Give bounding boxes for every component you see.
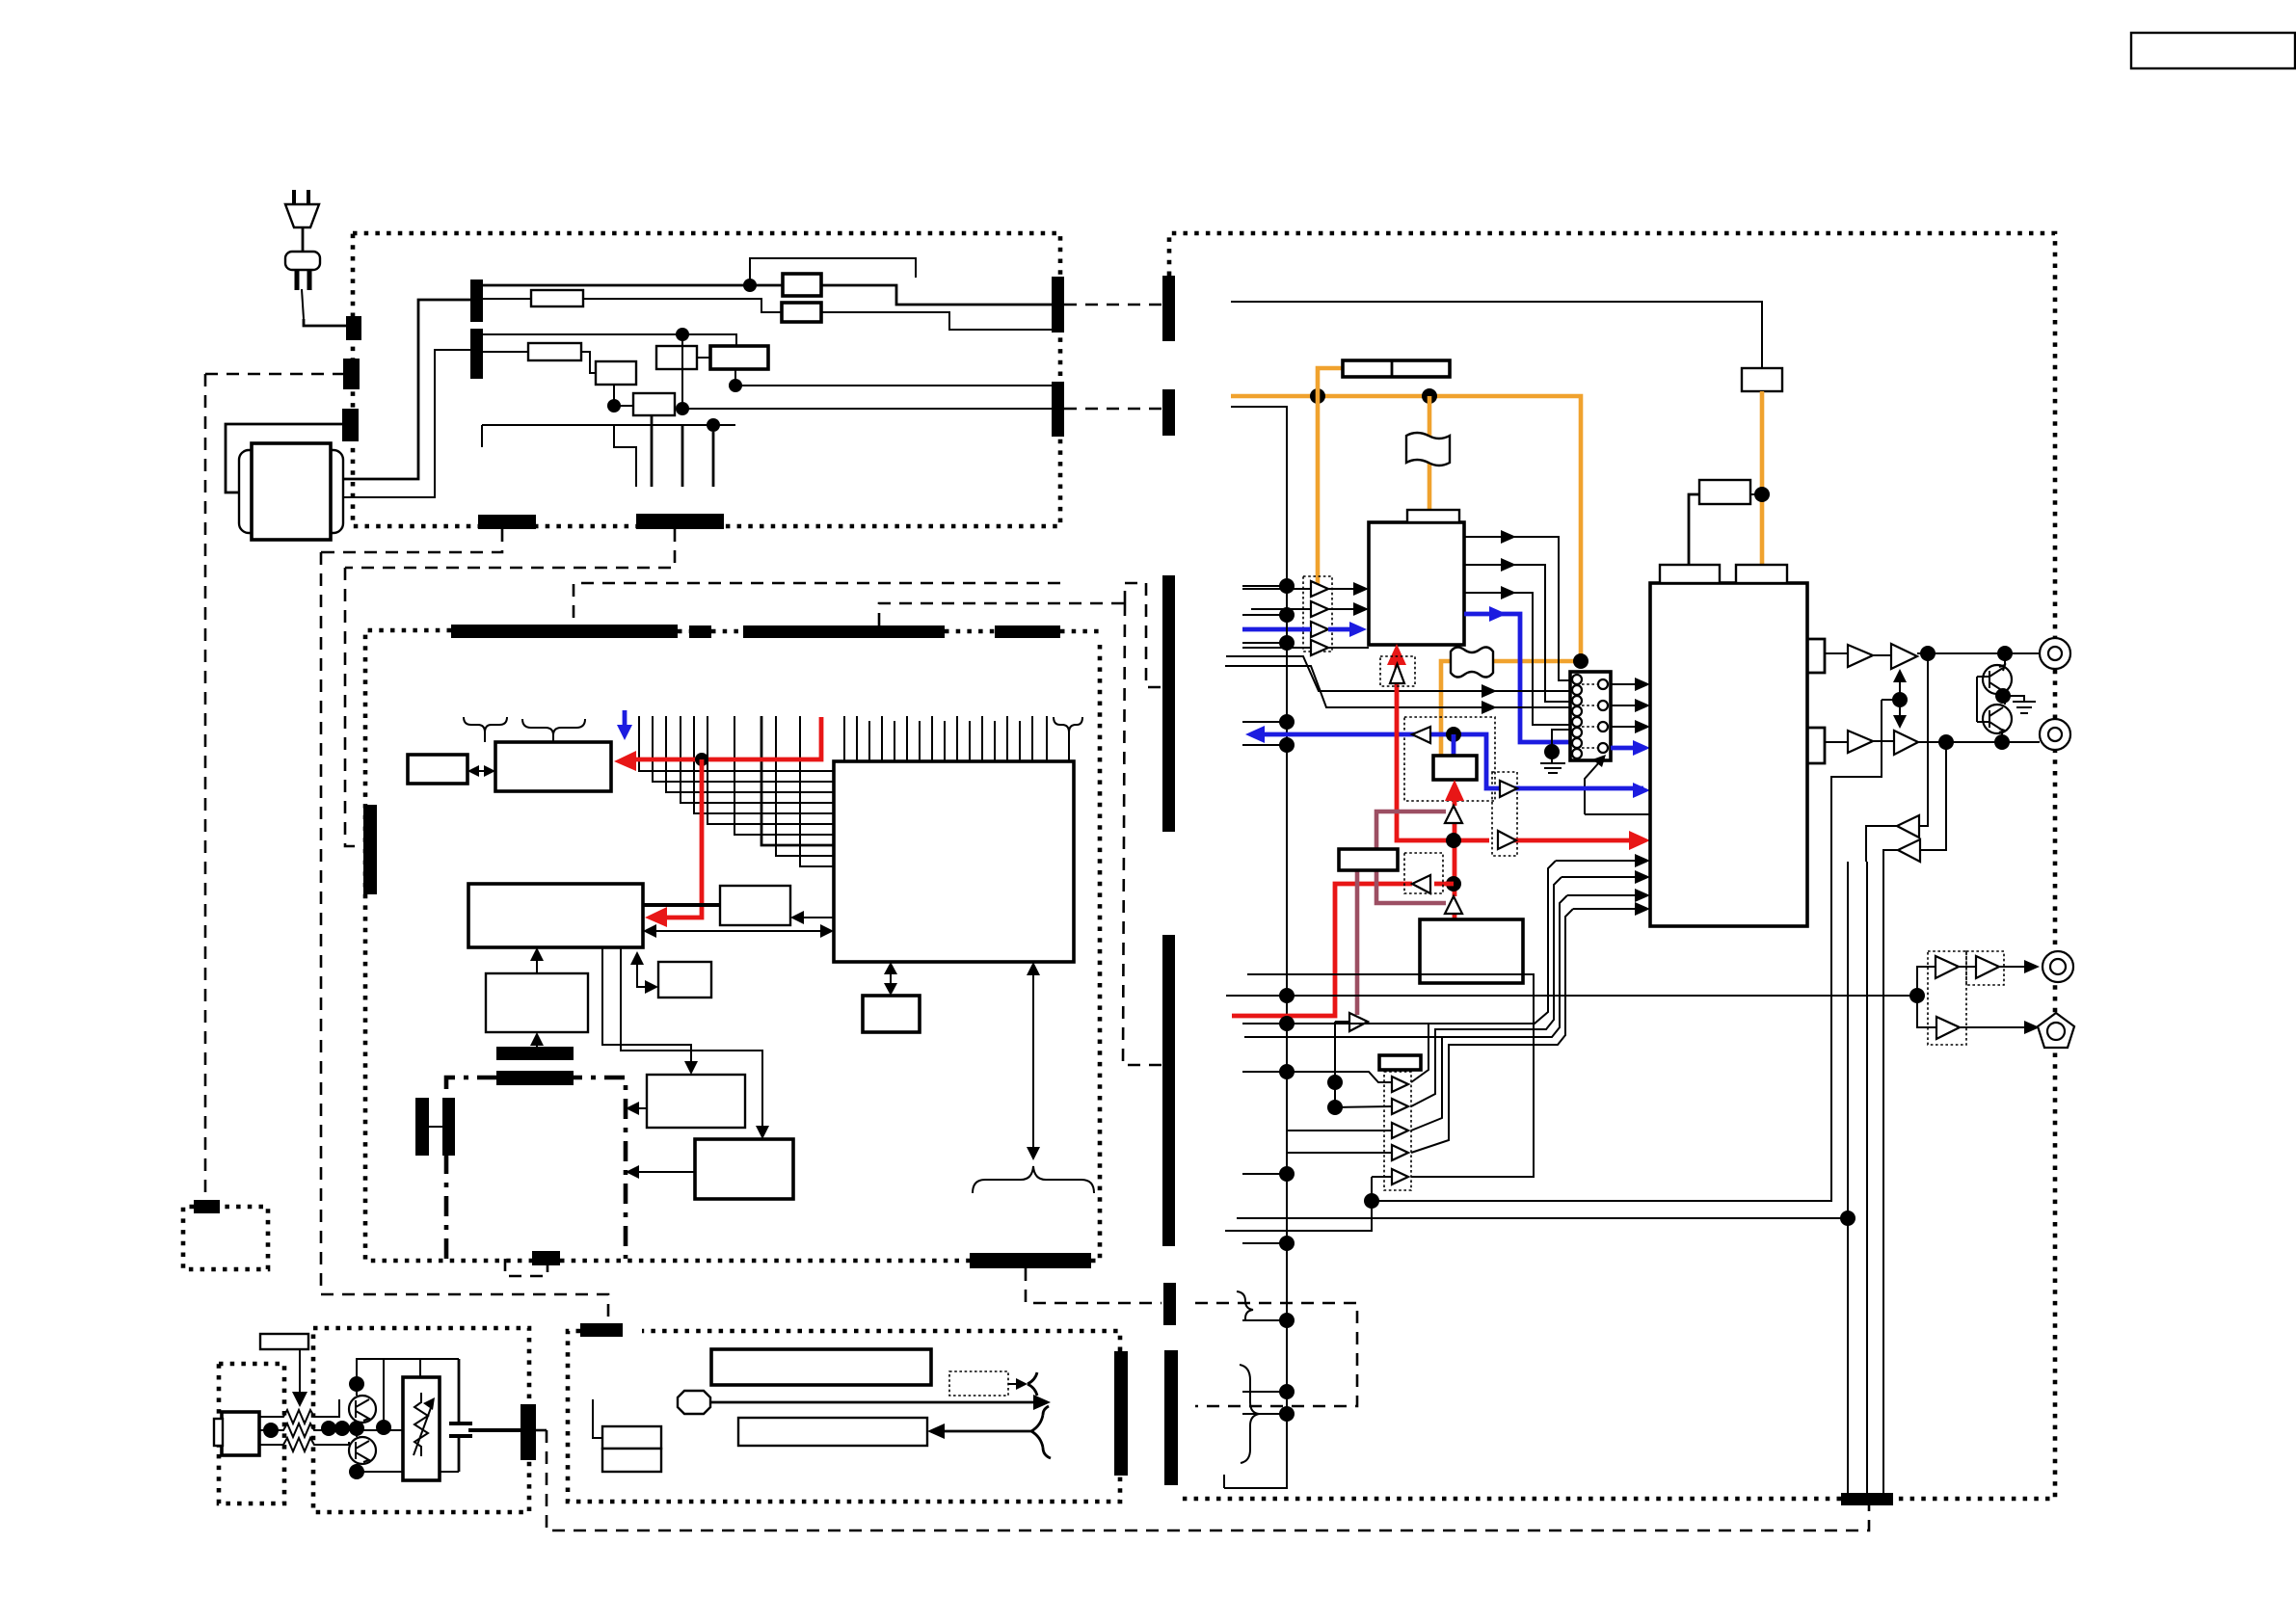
maroon net2 from R7 [1355, 870, 1360, 1015]
transistor Q-dn [349, 1437, 376, 1464]
orange net: reg to M2 tab [1760, 391, 1765, 569]
block R5 [647, 1075, 745, 1128]
wire feedback top [750, 258, 916, 285]
block A6 [710, 346, 768, 369]
fork symbol 2 [1031, 1406, 1051, 1458]
M2 top tab2 [1736, 565, 1787, 583]
red branch down to W [665, 759, 702, 918]
long verticals to bottom bar [1848, 862, 1883, 1493]
junction dot Q bottom [349, 1464, 364, 1479]
long lines to switch connector [1226, 656, 1570, 691]
junction dot red2 [1446, 876, 1461, 891]
junction dots L-ch [1920, 646, 1936, 661]
connector bar CN-PH (amp right edge) [521, 1404, 536, 1460]
M2 right tab lower [1808, 728, 1825, 763]
junction dots risers [1327, 1075, 1343, 1090]
buffer blue right-point [1500, 781, 1517, 797]
red stem selector down [1453, 787, 1457, 919]
block T2 [720, 886, 790, 925]
stub A3 down [614, 425, 636, 487]
wire T1 sec1 [343, 300, 470, 479]
dashed vertical rail2 [321, 552, 608, 1324]
switch actuator arrow [1585, 761, 1600, 814]
wire R6 to motor box arrow [635, 1171, 695, 1173]
E1 top tab [1407, 510, 1459, 522]
wire W down to R5 [602, 947, 691, 1067]
connector bar CN-M2 [689, 625, 711, 638]
record buffers down [1919, 653, 1928, 826]
connector bar CN-R1a [1162, 276, 1175, 341]
M2 bottom input arrows [1556, 860, 1642, 862]
blue input line [1242, 627, 1311, 632]
blue drop to selector [1452, 734, 1456, 756]
cable break symbol 2 [1451, 647, 1493, 677]
inter-channel double arrow [1899, 677, 1901, 721]
wire P1 main thick [483, 284, 783, 287]
block REG2 [1699, 480, 1750, 504]
connector bar CN-R1 [1052, 277, 1064, 333]
buffer lower left area [1349, 1013, 1368, 1031]
wire muting transistor links [1977, 653, 2005, 742]
wire W to U1 bidir [650, 930, 827, 932]
connector bar CN-R6 [1164, 1350, 1178, 1485]
buffer blue left-point [1412, 727, 1430, 743]
brace over IC right [1054, 717, 1082, 761]
buffer outputs to E1 [1328, 589, 1361, 609]
AC plug P1 [285, 190, 320, 319]
connector C-P1 (vertical bar) [470, 279, 483, 322]
dashed aux box [1195, 1303, 1357, 1406]
resistor R-c [259, 1438, 331, 1451]
title block [2131, 33, 2295, 68]
main board outline (dotted) [365, 630, 1100, 1261]
switch outputs to M2 [1611, 683, 1642, 685]
varistor zigzag with arrow [414, 1393, 428, 1456]
brace bottom (key group) [973, 1166, 1094, 1193]
wire A6 out right [735, 369, 1052, 386]
red branch left [1232, 884, 1454, 1016]
stub A5 down [681, 425, 684, 487]
dashed link power CN-R2 to right box [1064, 408, 1162, 411]
wire plug to board [304, 319, 347, 326]
blue through buffer to M2 [1514, 786, 1643, 791]
spindle motor box (dash-dot) [446, 1078, 626, 1259]
vertical feed lines [1334, 1022, 1336, 1107]
mechanism box (dotted) [568, 1331, 1120, 1502]
junction dot orange2 [1422, 388, 1437, 404]
crystal link [429, 1126, 442, 1128]
5-buffer stack dotted box [1384, 1072, 1411, 1190]
IC U1 (main processor) [834, 761, 1074, 962]
buffer inputs [1287, 1072, 1392, 1082]
wire A3-A4 link [614, 385, 633, 406]
buffer S4 [1392, 1145, 1408, 1160]
red buffer up2 [1445, 806, 1462, 823]
IC top pins [844, 716, 1047, 761]
fuse pair block [1343, 360, 1450, 377]
dotted sub block [949, 1371, 1008, 1396]
junction dot lineA [1364, 1193, 1379, 1209]
wire J-P2 down [681, 334, 683, 409]
wire B1-B2 bidir arrow [474, 770, 490, 772]
bus bottom stub [1223, 1475, 1225, 1488]
connector bar CN-R2 [1052, 382, 1064, 437]
wire A4 out right [682, 409, 1052, 415]
red rail to M2 [1513, 838, 1639, 843]
wire W thick to T2 [643, 903, 720, 907]
switch connector block [1570, 672, 1611, 760]
buffer T-c [1311, 622, 1328, 637]
junction dot J-P2 [676, 328, 689, 341]
dashed link power CN-R1 to right box [1064, 304, 1162, 306]
junction dots R-ch [1938, 734, 1954, 750]
dashed link mains to CN-L2 [205, 373, 343, 376]
orange drop to buffers [1316, 396, 1321, 584]
brace over B2 right [522, 719, 585, 735]
wire R4 to W arrow [536, 955, 538, 973]
capacitor plates [449, 1423, 472, 1436]
junction dot orange reg [1754, 487, 1770, 502]
block B1 (RAM) [408, 755, 467, 784]
junction dot orange1 [1310, 388, 1325, 404]
connector bar CN-M1 (top long) [451, 625, 678, 638]
connector bar CN-L2 [343, 359, 360, 389]
input lines to buffers [1242, 589, 1311, 648]
connector bar CN-M7 (bottom long) [970, 1253, 1091, 1268]
wire A1 out [821, 285, 1052, 305]
dashed rail mid-right gap [1123, 603, 1162, 1065]
connector bar CN-R2a [1162, 389, 1175, 436]
stub A4 down [651, 415, 654, 487]
red vertical from E1 [1397, 652, 1489, 840]
connector bar CN-B2 [636, 514, 724, 529]
resistor R-a [259, 1410, 331, 1423]
long line A [1372, 700, 1882, 1201]
block R7 [1339, 849, 1398, 870]
red buffer up3 [1445, 896, 1462, 914]
wire REG2 to M2 tab1 [1689, 494, 1699, 567]
orange stub to fuse pair [1318, 368, 1343, 396]
brace over B2 left [464, 717, 507, 732]
fork symbol 1 [1028, 1372, 1037, 1396]
fuse F1 [531, 290, 583, 306]
connector bar CN-R3 (tall) [1162, 575, 1175, 832]
E1 output lines to switch [1464, 537, 1570, 680]
bus wire vertical [1224, 407, 1287, 1488]
blue switch out to M2 [1611, 746, 1639, 751]
connector bar CN-O1 [194, 1200, 220, 1213]
wire stack L [593, 1399, 602, 1438]
jack L (RCA) [2040, 638, 2070, 669]
connector bar CN-M8 [496, 1047, 574, 1060]
M2 right tab upper [1808, 639, 1825, 673]
dashed link power to mid bar [574, 583, 1060, 625]
block keys [738, 1418, 927, 1446]
wire A2 out [821, 312, 1052, 330]
stub row with dot 1370 [1245, 1319, 1287, 1321]
buffer S5 [1392, 1169, 1408, 1184]
junction dot red [695, 753, 708, 766]
junction dot J-P4 [676, 402, 689, 415]
connector bar CN-M9 [496, 1071, 574, 1085]
block W (servo) [468, 884, 643, 947]
wire U1 long down arrow to brace [1032, 968, 1034, 1155]
jack R (RCA) [2040, 719, 2070, 750]
stack head block [1379, 1055, 1421, 1070]
M2 IC (audio amp) [1650, 583, 1807, 926]
long arrow knob to right [710, 1401, 1039, 1404]
transformer T1 [239, 443, 343, 540]
cable break symbol 1 [1406, 433, 1450, 466]
brace stems to B2 [485, 732, 553, 742]
dashed link bottom long [547, 1430, 1869, 1530]
wire A5-A6 link [697, 357, 710, 359]
connector bar CN-M5 (left edge) [363, 805, 377, 894]
wire F1 row [483, 299, 782, 312]
wire T1 sec2 [343, 350, 470, 497]
junction dot blue [1446, 727, 1461, 742]
connector bar CN-R4 (tall) [1162, 935, 1175, 1246]
buffer T-d [1311, 640, 1328, 655]
blue arrow into pin bus [623, 710, 627, 729]
dashed link mid bottom bar to right [1026, 1268, 1161, 1303]
wire bus stub rows with junction dots [1242, 585, 1287, 587]
arrow from fork2 into keys [939, 1430, 1031, 1433]
wire amp out thick [468, 1428, 521, 1432]
dashed stub botmid bar down [505, 1259, 547, 1276]
capacitor leads [458, 1359, 461, 1472]
muting transistor Q-m1 [1983, 665, 2012, 694]
red net to B2 [632, 717, 821, 759]
block small stack B [602, 1449, 661, 1472]
resistor R-b [259, 1423, 331, 1437]
red left dotted box [1404, 853, 1443, 893]
arrow to fork1 [1008, 1383, 1020, 1385]
small option box (dotted) [183, 1207, 268, 1269]
dashed link mid bar2 up [879, 603, 1125, 625]
red buffer up (dotted box) [1380, 656, 1415, 686]
wire ground bus low [482, 425, 735, 447]
block small stack A [602, 1426, 661, 1449]
dashed link CN-B2 down [345, 529, 675, 568]
junction dot phono1 [263, 1423, 279, 1438]
crystal X1 plates [415, 1098, 429, 1156]
transistor Q-up [349, 1396, 376, 1423]
ground at switch [1544, 744, 1560, 759]
wire C-P2 row1 [483, 334, 736, 346]
input buffers group (dotted) [1303, 576, 1332, 652]
connector bar CN-M3 [743, 625, 945, 638]
block REG1 [1742, 368, 1782, 391]
dashed link CN-B1 down [321, 529, 502, 552]
L-ch amp chain [1825, 652, 1848, 654]
block R6 [695, 1139, 793, 1199]
dashed vertical between boxes [1125, 583, 1162, 687]
jack line-out [2042, 951, 2073, 982]
cartridge stylus nub [214, 1419, 223, 1446]
selector block [1433, 756, 1477, 780]
octagon knob [678, 1391, 710, 1414]
block A3 [596, 361, 636, 385]
block LCD [711, 1349, 931, 1385]
connector bar CN-B1 [478, 515, 536, 529]
wire U1 to T2 arrow [798, 917, 834, 918]
buffer red right-point [1498, 831, 1516, 849]
wire F2 row [483, 352, 596, 373]
audio board outline (dotted) [1169, 233, 2055, 1499]
brace big left [1240, 1365, 1259, 1463]
stub A6 down [712, 432, 715, 487]
connector bar CN-K2 (right edge) [1114, 1351, 1128, 1476]
junction dot J-P6 [707, 418, 720, 432]
pin fan into IC left (staircase) [639, 716, 834, 771]
wire stub rows bottom-left [1250, 1392, 1287, 1414]
block M (EEPROM) [863, 996, 920, 1032]
buffer T-b [1311, 601, 1328, 617]
headphone feed line [1226, 995, 1913, 997]
headphone buffer group [1928, 951, 1966, 1045]
block R8 [1420, 919, 1523, 983]
head amp box (dotted) [313, 1328, 529, 1512]
wire top rail to reg [1231, 302, 1762, 368]
blue rail left [1261, 734, 1520, 788]
wire R5 to motor box arrow [635, 1107, 647, 1109]
wire phono top rail [331, 1359, 459, 1472]
maroon net [1376, 811, 1446, 903]
fuse F2 [528, 343, 581, 360]
junction dot lineB [1840, 1211, 1855, 1226]
bias arrow down [299, 1349, 301, 1397]
wire CN-M9 to R4 arrow [536, 1040, 538, 1047]
M2 top tab1 [1660, 565, 1720, 583]
connector bar CN-R7 (bottom) [1841, 1493, 1893, 1505]
block R4 (motor drive) [486, 973, 588, 1032]
block A5 [656, 346, 697, 369]
cartridge body [222, 1412, 259, 1455]
block B2 (system control) [495, 742, 611, 791]
DIN jack pentagon [2038, 1013, 2074, 1048]
junction dots after resistors [321, 1421, 336, 1436]
varistor block [403, 1377, 440, 1480]
block A2 [782, 303, 821, 322]
wire W bottom to T1b [637, 959, 651, 987]
block A1 [783, 274, 821, 296]
risers from 5-buffer stack [1242, 861, 1556, 1082]
junction dot red1 [1446, 833, 1461, 848]
connector bar CN-L1 [346, 316, 361, 340]
connector bar CN-R5 [1163, 1283, 1176, 1325]
R-ch amp chain [1825, 741, 1848, 743]
dashed vertical rail3 [345, 568, 364, 846]
power supply board outline (dotted) [353, 233, 1060, 526]
dashed vertical left rail [204, 374, 207, 1200]
buffer T-a [1311, 581, 1328, 597]
junction dot orange3 [1573, 653, 1589, 669]
dashed link phono bar [535, 1429, 547, 1432]
cartridge box (dotted) [219, 1364, 284, 1503]
muting transistor Q-m2 [1983, 705, 2012, 733]
block A4 [633, 393, 675, 415]
buffer S1 [1392, 1077, 1408, 1092]
orange drop to E1 [1428, 396, 1432, 511]
long line B [1237, 1217, 1848, 1219]
brace small right of CN-R4 [1237, 1291, 1253, 1320]
bias block [260, 1334, 308, 1349]
bus dots on feed lines [1279, 988, 1295, 1003]
connector bar CN-M4 [995, 625, 1060, 638]
wire W down to R6 [621, 947, 762, 1131]
junction dot J-P5 [607, 399, 621, 412]
selector group dotted outline [1404, 717, 1495, 801]
blue E1 out to switch [1464, 614, 1570, 742]
wire REG2 stub [1750, 493, 1756, 495]
ground at Q-m [2013, 702, 2036, 713]
connector bar CN-L3 [342, 409, 359, 441]
wire T1 primary loop [226, 424, 343, 492]
buffer S2 [1392, 1099, 1408, 1114]
connector bar CN-K1 (top) [580, 1323, 623, 1337]
buffer S3 [1392, 1123, 1408, 1138]
junction dot J-P3 [729, 379, 742, 392]
wire U1-M bidir [890, 968, 892, 991]
buffer red left-point [1412, 875, 1430, 893]
connector bar CN-M6 (bottom small) [532, 1251, 560, 1265]
block E1 (motor controller) [1369, 522, 1464, 645]
block T1b [658, 962, 711, 998]
connector C-P2 (vertical bar) [470, 329, 483, 379]
junction dot Q top [349, 1376, 364, 1392]
orange main rail [1231, 396, 1581, 756]
junction dot J-P1 [743, 279, 757, 292]
